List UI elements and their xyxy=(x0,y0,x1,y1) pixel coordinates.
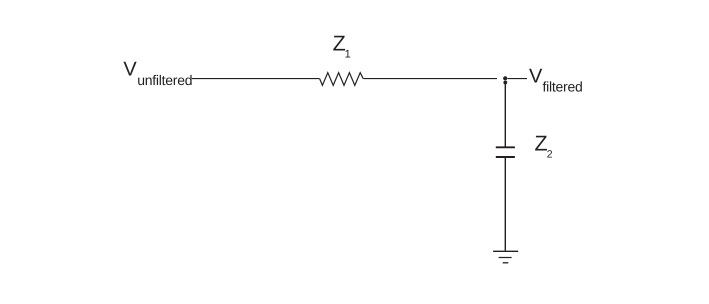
wire xyxy=(508,78,527,80)
svg-text:V: V xyxy=(123,59,137,81)
capacitor Z2 xyxy=(496,147,515,157)
ground xyxy=(493,251,518,262)
svg-text:1: 1 xyxy=(345,48,351,60)
wire xyxy=(504,83,506,147)
wire xyxy=(363,78,497,80)
svg-text:filtered: filtered xyxy=(543,78,583,94)
label Z2 xyxy=(535,132,553,161)
svg-text:V: V xyxy=(529,66,543,88)
label Z1 xyxy=(333,32,351,61)
resistor Z1 xyxy=(320,73,364,86)
svg-text:unfiltered: unfiltered xyxy=(137,72,192,88)
svg-text:2: 2 xyxy=(547,148,553,160)
label Vfiltered xyxy=(529,66,583,95)
node Vfiltered junction xyxy=(503,76,507,84)
wire xyxy=(192,78,320,80)
wire xyxy=(504,158,506,251)
label Vunfiltered xyxy=(123,59,192,88)
svg-text:Z: Z xyxy=(535,132,548,156)
